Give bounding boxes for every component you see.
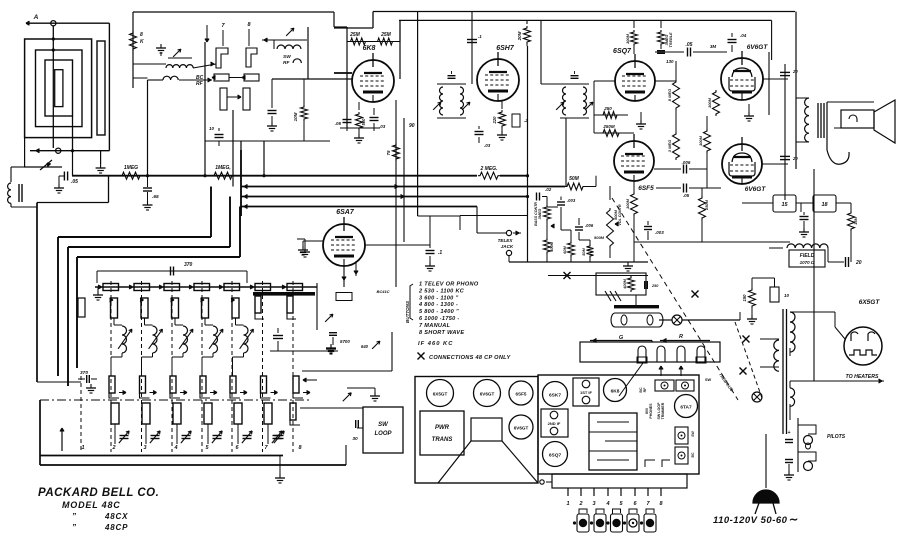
svg-text:1MEG: 1MEG	[124, 165, 138, 171]
svg-text:6X5GT: 6X5GT	[859, 299, 881, 306]
svg-text:370: 370	[184, 262, 193, 268]
svg-text:6K8: 6K8	[363, 45, 376, 52]
svg-text:3: 3	[143, 445, 146, 451]
svg-text:4 800 - 1300 -: 4 800 - 1300 -	[418, 302, 458, 308]
svg-text:3 600 - 1100 ”: 3 600 - 1100 ”	[419, 295, 459, 301]
svg-text:30: 30	[352, 436, 358, 442]
svg-text:CONNECTIONS 48 CP ONLY: CONNECTIONS 48 CP ONLY	[429, 355, 511, 361]
svg-text:TRANS: TRANS	[432, 437, 453, 443]
svg-text:7 MANUAL: 7 MANUAL	[419, 323, 451, 329]
svg-text:8: 8	[140, 32, 143, 38]
svg-text:60M: 60M	[563, 245, 567, 253]
svg-text:1: 1	[81, 445, 84, 451]
svg-text:.1: .1	[438, 250, 442, 256]
svg-text:IF 460 KC: IF 460 KC	[418, 341, 453, 347]
svg-text:8 MEG: 8 MEG	[667, 89, 672, 101]
svg-text:6SK7: 6SK7	[549, 393, 561, 399]
svg-text:.1: .1	[478, 34, 482, 39]
svg-text:6TA7: 6TA7	[680, 405, 692, 411]
svg-text:.003: .003	[655, 230, 664, 235]
svg-text:BC: BC	[691, 452, 695, 457]
svg-text:130: 130	[666, 59, 674, 64]
svg-text:1: 1	[566, 501, 569, 507]
svg-text:20: 20	[855, 260, 862, 266]
svg-text:.65: .65	[152, 194, 159, 200]
svg-text:6V6GT: 6V6GT	[514, 426, 529, 431]
svg-text:.04: .04	[740, 33, 747, 38]
svg-text:250: 250	[651, 284, 659, 288]
svg-text:6SQ7: 6SQ7	[549, 453, 562, 459]
svg-text:SW: SW	[283, 54, 291, 60]
svg-text:400M: 400M	[623, 278, 627, 289]
svg-text:100M: 100M	[698, 135, 703, 146]
svg-text:6SF5: 6SF5	[638, 185, 654, 192]
svg-text:2: 2	[111, 445, 115, 451]
svg-text:1 TELEV OR PHONO: 1 TELEV OR PHONO	[419, 282, 479, 288]
svg-text:6SH7: 6SH7	[496, 45, 515, 52]
svg-text:RF: RF	[196, 81, 204, 87]
svg-text:.03: .03	[484, 143, 491, 148]
svg-text:100M: 100M	[625, 33, 630, 44]
svg-text:500: 500	[361, 118, 366, 126]
svg-text:RF: RF	[283, 60, 290, 66]
svg-text:250M: 250M	[602, 124, 615, 129]
svg-text:6SA7: 6SA7	[336, 209, 355, 216]
svg-text:1MEG,: 1MEG,	[215, 165, 231, 171]
svg-text:.03: .03	[379, 124, 386, 129]
svg-text:10: 10	[784, 293, 790, 298]
svg-text:MODEL 48C: MODEL 48C	[62, 500, 121, 510]
svg-text:PILOTS: PILOTS	[827, 434, 846, 440]
svg-text:3: 3	[592, 501, 595, 507]
svg-text:18: 18	[821, 202, 828, 208]
svg-text:3M: 3M	[710, 44, 717, 49]
svg-text:.05: .05	[683, 193, 690, 198]
svg-text:TELEX: TELEX	[498, 238, 514, 243]
svg-text:3 MEG: 3 MEG	[667, 140, 672, 152]
svg-text:500M: 500M	[594, 235, 605, 240]
svg-text:48CX: 48CX	[104, 512, 128, 521]
svg-text:BC41C: BC41C	[376, 289, 389, 294]
svg-text:90: 90	[409, 123, 415, 129]
svg-text:.05: .05	[335, 121, 342, 126]
svg-text:50M: 50M	[582, 247, 586, 255]
svg-text:3MEG: 3MEG	[538, 209, 542, 220]
svg-text:A: A	[33, 14, 39, 21]
svg-text:25M: 25M	[380, 32, 392, 38]
svg-text:75: 75	[386, 150, 391, 156]
svg-text:.02: .02	[545, 187, 552, 192]
svg-text:.05: .05	[71, 179, 78, 185]
svg-text:50M: 50M	[569, 176, 580, 182]
svg-text:PHONES: PHONES	[649, 403, 653, 419]
svg-text:20M: 20M	[517, 31, 522, 41]
svg-text:100M: 100M	[707, 97, 712, 108]
svg-text:K: K	[140, 39, 144, 45]
svg-text:10M: 10M	[293, 112, 298, 121]
svg-text:6X5GT: 6X5GT	[433, 392, 448, 397]
svg-text:150: 150	[742, 294, 747, 302]
svg-text:100M: 100M	[625, 198, 630, 209]
svg-text:25M: 25M	[349, 32, 361, 38]
svg-text:∼: ∼	[789, 514, 798, 526]
svg-text:110-120V 50-60: 110-120V 50-60	[713, 515, 788, 526]
svg-text:4: 4	[173, 445, 177, 451]
svg-text:8 SHORT WAVE: 8 SHORT WAVE	[419, 330, 464, 336]
svg-text:15: 15	[781, 202, 788, 208]
svg-text:5 800 - 1400 ”: 5 800 - 1400 ”	[419, 309, 459, 315]
svg-text:RF: RF	[643, 387, 647, 393]
svg-text:”: ”	[72, 523, 76, 532]
svg-text:6K8: 6K8	[611, 389, 620, 395]
svg-text:SW: SW	[378, 422, 389, 428]
svg-text:TREBLE: TREBLE	[669, 32, 673, 48]
svg-text:4: 4	[605, 501, 609, 507]
svg-text:6SQ7: 6SQ7	[613, 48, 632, 55]
svg-text:15M: 15M	[853, 216, 858, 224]
svg-text:20: 20	[792, 156, 798, 161]
svg-text:640: 640	[361, 344, 369, 349]
svg-text:6V6GT: 6V6GT	[747, 44, 769, 51]
svg-text:.006: .006	[585, 223, 594, 228]
svg-text:”: ”	[72, 512, 76, 521]
svg-text:48CP: 48CP	[104, 523, 128, 532]
svg-text:PWR: PWR	[435, 425, 450, 431]
svg-text:LOOP: LOOP	[374, 431, 392, 437]
svg-text:.003: .003	[567, 198, 576, 203]
svg-text:1070 Ω: 1070 Ω	[800, 260, 815, 265]
svg-text:+: +	[788, 430, 791, 436]
svg-text:JACK: JACK	[501, 244, 514, 249]
svg-text:2ND IF: 2ND IF	[548, 421, 561, 426]
svg-text:SW: SW	[705, 378, 712, 382]
svg-text:2 530 - 1100 KC: 2 530 - 1100 KC	[418, 288, 465, 294]
svg-text:250: 250	[603, 106, 612, 111]
svg-text:400M: 400M	[550, 241, 554, 252]
svg-text:2: 2	[578, 501, 582, 507]
svg-text:R: R	[679, 334, 683, 340]
svg-text:6 1000 -1750 -: 6 1000 -1750 -	[419, 316, 460, 322]
svg-text:6V6GT: 6V6GT	[480, 392, 495, 397]
svg-text:FIELD: FIELD	[800, 253, 815, 259]
svg-text:.006: .006	[682, 160, 691, 165]
svg-text:220: 220	[492, 116, 497, 125]
svg-text:250M: 250M	[704, 199, 709, 211]
svg-text:TRIMMER: TRIMMER	[661, 402, 665, 419]
svg-text:6V6GT: 6V6GT	[745, 186, 767, 193]
svg-text:10: 10	[209, 126, 215, 131]
svg-text:SW: SW	[691, 430, 695, 436]
svg-text:6SF5: 6SF5	[516, 392, 527, 397]
svg-text:PACKARD BELL CO.: PACKARD BELL CO.	[38, 487, 159, 499]
svg-text:BASS CONTR: BASS CONTR	[534, 202, 538, 226]
svg-text:1ST IF: 1ST IF	[580, 390, 593, 395]
svg-text:2 MEG.: 2 MEG.	[480, 166, 498, 172]
svg-text:TO HEATERS: TO HEATERS	[846, 374, 879, 380]
svg-text:.05: .05	[686, 42, 693, 48]
svg-text:20: 20	[792, 69, 798, 74]
svg-text:BUTTONS: BUTTONS	[405, 300, 410, 323]
svg-text:5700: 5700	[340, 339, 350, 344]
